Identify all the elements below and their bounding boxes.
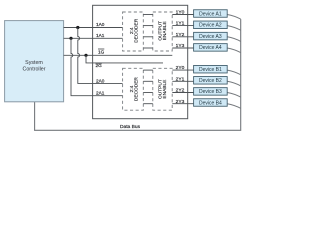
svg-text:1Y3: 1Y3 bbox=[176, 43, 185, 49]
wire decoder to OE row 2Y3 bbox=[143, 103, 153, 105]
svg-text:Device B2: Device B2 bbox=[199, 78, 222, 84]
svg-text:Data Bus: Data Bus bbox=[120, 124, 141, 130]
svg-text:2A0: 2A0 bbox=[96, 78, 105, 83]
svg-text:2Y2: 2Y2 bbox=[176, 88, 185, 94]
wire A1 vertical to 2A1 (hops over 1G wire) bbox=[71, 38, 123, 95]
svg-text:System: System bbox=[25, 60, 43, 66]
wire decoder to OE row 1Y2 bbox=[143, 36, 153, 38]
svg-text:Device A1: Device A1 bbox=[199, 11, 222, 17]
svg-text:Device B3: Device B3 bbox=[199, 89, 222, 95]
wire decoder to OE row 1Y1 bbox=[143, 25, 153, 27]
node 1A1 junction bbox=[69, 37, 72, 40]
wire decoder to OE row 2Y0 bbox=[143, 69, 153, 71]
wire output 1Y3 to Device A4 bbox=[172, 47, 193, 49]
wire decoder to OE row 1Y3 bbox=[143, 47, 153, 49]
svg-text:2G: 2G bbox=[96, 63, 103, 68]
wire 1G bbox=[64, 54, 173, 56]
decoder U2 dashed box (lower 2:4 decoder) bbox=[123, 68, 144, 110]
svg-text:2A1: 2A1 bbox=[96, 91, 105, 96]
svg-text:Device A2: Device A2 bbox=[199, 23, 222, 29]
svg-text:1Y1: 1Y1 bbox=[176, 21, 185, 27]
system controller box bbox=[5, 21, 64, 102]
device B3 box bbox=[194, 88, 228, 96]
device A2 box bbox=[194, 21, 228, 29]
svg-text:ENABLE: ENABLE bbox=[162, 80, 168, 99]
bus curve to Device B2 bbox=[227, 81, 241, 86]
wire 1A1 bbox=[64, 37, 123, 39]
wire output 2Y2 to Device B3 bbox=[172, 92, 193, 94]
svg-text:1Y2: 1Y2 bbox=[176, 32, 185, 38]
bus curve to Device B1 bbox=[227, 70, 241, 75]
svg-text:Device A4: Device A4 bbox=[199, 45, 222, 51]
svg-text:Controller: Controller bbox=[23, 66, 46, 72]
svg-text:1A1: 1A1 bbox=[96, 33, 105, 38]
device B2 box bbox=[194, 77, 228, 85]
wire decoder to OE row 2Y1 bbox=[143, 80, 153, 82]
decoder U1 dashed box (upper 2:4 decoder) bbox=[123, 12, 144, 51]
wire output 1Y0 to Device A1 bbox=[172, 14, 193, 16]
bus curve to Device A4 bbox=[227, 48, 241, 53]
svg-text:DECODER: DECODER bbox=[133, 77, 139, 102]
device B4 box bbox=[194, 99, 228, 107]
decoder IC outer box bbox=[93, 5, 188, 118]
svg-text:2Y3: 2Y3 bbox=[176, 99, 185, 105]
wire output 2Y1 to Device B2 bbox=[172, 80, 193, 82]
bus curve to Device A3 bbox=[227, 37, 241, 42]
svg-text:1G: 1G bbox=[98, 49, 105, 54]
wire output 2Y3 to Device B4 bbox=[172, 103, 193, 105]
svg-text:2Y1: 2Y1 bbox=[176, 76, 185, 82]
output enable dashed box (lower) bbox=[153, 68, 172, 110]
wire output 1Y1 to Device A2 bbox=[172, 25, 193, 27]
bus curve to Device A2 bbox=[227, 26, 241, 31]
node 1A0 junction bbox=[76, 26, 79, 29]
svg-text:Device A3: Device A3 bbox=[199, 34, 222, 40]
wire decoder to OE row 1Y0 bbox=[143, 14, 153, 16]
wire 2G (from 1G junction down then right) bbox=[86, 55, 163, 63]
wire 1A0 bbox=[64, 27, 123, 29]
wire output 2Y0 to Device B1 bbox=[172, 69, 193, 71]
wire A0 vertical to 2A0 (hops over 1A1 and 1G wires) bbox=[78, 28, 123, 84]
bus curve to Device A1 bbox=[227, 15, 241, 20]
svg-text:1Y0: 1Y0 bbox=[176, 10, 185, 16]
device A3 box bbox=[194, 32, 228, 40]
svg-text:Device B1: Device B1 bbox=[199, 67, 222, 73]
bus curve to Device B4 bbox=[227, 104, 241, 109]
svg-text:1A0: 1A0 bbox=[96, 22, 105, 27]
svg-text:ENABLE: ENABLE bbox=[162, 21, 168, 40]
node 1G junction bbox=[84, 54, 87, 57]
data bus wire (bottom and right) bbox=[35, 19, 241, 130]
bus curve to Device B3 bbox=[227, 93, 241, 98]
wire output 1Y2 to Device A3 bbox=[172, 36, 193, 38]
device A1 box bbox=[194, 10, 228, 18]
output enable dashed box (upper) bbox=[153, 12, 172, 51]
svg-text:DECODER: DECODER bbox=[133, 18, 139, 43]
device A4 box bbox=[194, 44, 228, 52]
wire decoder to OE row 2Y2 bbox=[143, 92, 153, 94]
svg-text:2Y0: 2Y0 bbox=[176, 65, 185, 71]
svg-text:Device B4: Device B4 bbox=[199, 100, 222, 106]
device B1 box bbox=[194, 65, 228, 73]
